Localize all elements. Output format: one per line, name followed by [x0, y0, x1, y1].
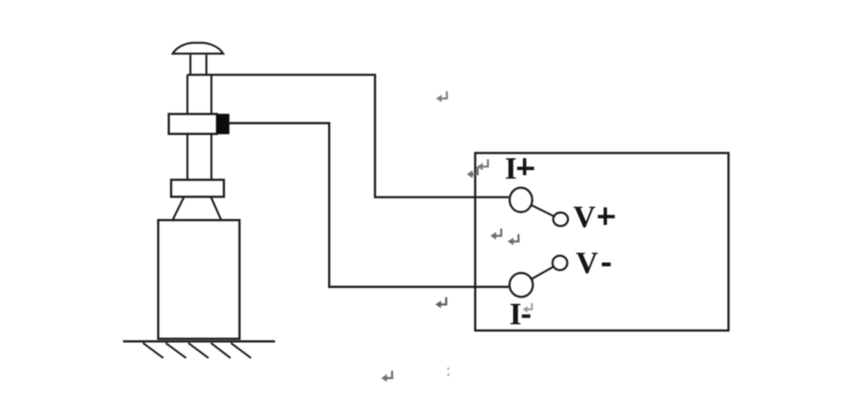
- electrode tap (black square): [217, 114, 230, 134]
- taper left: [173, 197, 184, 219]
- insulator shaft upper: [187, 75, 211, 114]
- return mark box corner lower: [467, 167, 478, 178]
- return mark after I-: [523, 303, 532, 312]
- glyph V of V-: [576, 253, 598, 274]
- ground hatch 2: [166, 343, 186, 358]
- faint colon speck: [447, 368, 449, 376]
- return mark bottom: [381, 371, 392, 382]
- return mark inside box right: [508, 234, 519, 245]
- glyph I of I-: [511, 304, 521, 324]
- terminal I+ circle: [510, 188, 533, 212]
- hex nut: [169, 114, 217, 134]
- ground line: [123, 340, 275, 342]
- ground hatch 5: [231, 343, 251, 358]
- link I+ to V+: [521, 200, 561, 220]
- wire bottom (electrode tap to box I- terminal): [230, 123, 509, 287]
- terminal cap dome: [173, 43, 224, 54]
- collar: [171, 180, 224, 197]
- return mark top middle: [436, 91, 447, 102]
- terminal neck: [190, 55, 206, 75]
- wire top (shaft top to box I+ terminal): [187, 75, 508, 197]
- link I- to V-: [521, 263, 560, 285]
- ground hatch 1: [143, 343, 163, 358]
- glyph V of V+: [574, 207, 596, 228]
- insulator shaft lower: [187, 134, 211, 180]
- terminal V+ circle: [553, 213, 568, 226]
- ground hatch 3: [188, 343, 208, 358]
- terminal V- circle: [553, 256, 568, 270]
- terminal I- circle: [510, 273, 533, 297]
- instrument box: [475, 153, 728, 331]
- glyph I of I+: [506, 158, 516, 178]
- taper right: [211, 197, 221, 219]
- return mark box corner upper: [477, 159, 488, 170]
- return mark inside box left: [490, 229, 501, 240]
- shell body: [158, 220, 239, 339]
- ground hatch 4: [211, 343, 231, 358]
- return mark left of box: [435, 297, 446, 308]
